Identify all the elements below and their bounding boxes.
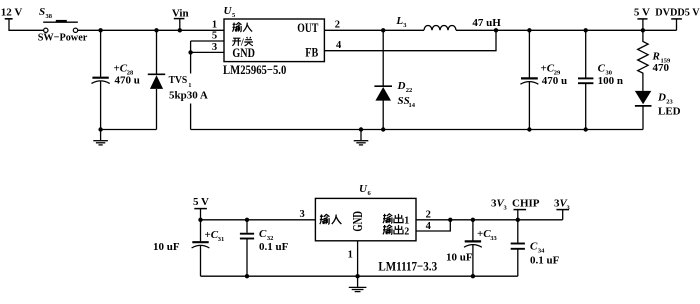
wire 5V stub	[642, 19, 644, 30]
svg-text:GND: GND	[350, 211, 365, 232]
svg-text:FB: FB	[305, 45, 318, 60]
svg-text:GND: GND	[232, 45, 255, 60]
ground bottom	[349, 276, 367, 291]
svg-text:TVS: TVS	[169, 74, 188, 86]
wire DVDD5 stub	[676, 19, 678, 30]
switch S38 contact bar	[43, 21, 78, 23]
wire middle ground rail	[191, 129, 643, 131]
LED D23	[635, 91, 652, 130]
wire 3V3 stub	[562, 210, 564, 220]
svg-text:0.1 uF: 0.1 uF	[259, 241, 289, 253]
svg-text:31: 31	[218, 236, 225, 243]
svg-text:3: 3	[300, 209, 305, 220]
node pin3/pin5 junction	[188, 50, 192, 54]
label U5 on/off (CJK)	[232, 38, 241, 46]
terminal DVDD5 bar	[671, 18, 682, 20]
svg-text:1: 1	[348, 250, 353, 261]
svg-text:R: R	[652, 51, 660, 63]
svg-text:2: 2	[426, 210, 431, 221]
node Vin	[178, 28, 182, 32]
node D22 bottom	[381, 127, 385, 131]
capacitor C30	[578, 30, 593, 129]
regulator IC U5 box	[224, 19, 324, 62]
terminal 12V bar	[5, 18, 13, 20]
wire CHIP stub	[517, 210, 519, 220]
svg-text:5 V: 5 V	[193, 196, 209, 208]
node C31 top	[198, 218, 202, 222]
svg-text:3: 3	[212, 42, 217, 53]
label TVS1 background	[167, 74, 199, 89]
wire OUT to inductor	[324, 29, 424, 31]
label U5 input (CJK)	[232, 23, 241, 32]
node D22 top	[381, 28, 385, 32]
svg-text:LM1117−3.3: LM1117−3.3	[378, 258, 437, 273]
terminal 3V3 CHIP bar	[514, 209, 527, 211]
svg-text:0.1 uF: 0.1 uF	[530, 255, 560, 267]
svg-text:CHIP: CHIP	[512, 198, 540, 210]
wire pin2 output	[416, 219, 563, 221]
node C33 bottom	[471, 274, 475, 278]
node C32 top	[245, 218, 249, 222]
svg-text:+C: +C	[205, 229, 219, 241]
svg-text:1: 1	[404, 215, 409, 226]
svg-text:38: 38	[46, 13, 53, 20]
svg-text:47 uH: 47 uH	[472, 17, 501, 29]
svg-text:DVDD5 V: DVDD5 V	[655, 7, 699, 19]
node FB tap	[494, 28, 498, 32]
svg-text:100 n: 100 n	[598, 75, 623, 87]
wire FB feedback	[324, 30, 496, 50]
resistor R159	[638, 30, 648, 91]
svg-text:1: 1	[188, 82, 191, 89]
svg-text:2: 2	[404, 226, 409, 237]
terminal 3V3 bar	[556, 209, 569, 211]
svg-text:1: 1	[212, 20, 217, 31]
svg-text:5kp30 A: 5kp30 A	[169, 89, 208, 101]
label U6 input (CJK)	[320, 214, 330, 224]
node C30 bottom	[584, 127, 588, 131]
capacitor C31	[192, 220, 210, 276]
svg-text:14: 14	[409, 102, 416, 109]
capacitor C32	[240, 220, 254, 276]
wire 12V stub	[9, 19, 44, 31]
node 5V / R159	[641, 28, 645, 32]
node pin2/pin4 join	[448, 218, 452, 222]
node C28 bottom	[98, 127, 102, 131]
inductor L3	[424, 25, 456, 30]
wire left ground rail	[101, 129, 157, 131]
svg-text:5 V: 5 V	[634, 7, 650, 19]
value 5kp30 A background	[167, 89, 210, 104]
wire pin4 output	[416, 220, 450, 231]
capacitor C33	[464, 220, 482, 276]
wire bottom rail	[201, 275, 518, 277]
svg-text:C: C	[598, 63, 606, 75]
node C33 top	[471, 218, 475, 222]
ground left	[93, 130, 108, 145]
regulator IC U6 box	[315, 198, 416, 240]
svg-text:4: 4	[336, 40, 342, 51]
svg-text:33: 33	[490, 235, 497, 242]
terminal 5V (bottom) bar	[194, 208, 207, 210]
wire Vin stub	[179, 19, 181, 31]
svg-text:470 u: 470 u	[115, 75, 140, 87]
svg-text:23: 23	[666, 99, 673, 106]
svg-text:2: 2	[335, 20, 340, 31]
svg-text:C: C	[530, 240, 538, 252]
svg-text:22: 22	[406, 87, 413, 94]
svg-text:D: D	[397, 80, 406, 92]
diode D22	[374, 30, 392, 129]
node C30 top	[584, 28, 588, 32]
switch S38 left contact	[44, 28, 48, 32]
ground middle	[354, 130, 369, 145]
svg-text:10 uF: 10 uF	[153, 241, 180, 253]
svg-text:+C: +C	[114, 63, 128, 75]
svg-text:LM25965−5.0: LM25965−5.0	[223, 62, 286, 77]
svg-text:L: L	[395, 15, 403, 27]
TVS diode TVS3	[148, 30, 165, 129]
node CHIP / C34	[516, 218, 520, 222]
wire inductor to DVDD5	[456, 29, 677, 31]
node C32 bottom	[245, 274, 249, 278]
svg-text:C: C	[259, 228, 267, 240]
capacitor C29	[520, 30, 538, 129]
capacitor C34	[511, 220, 525, 276]
node C28 top	[98, 28, 102, 32]
svg-text:12 V: 12 V	[1, 7, 23, 19]
svg-text:10 uF: 10 uF	[446, 251, 473, 263]
svg-text:SW−Power: SW−Power	[38, 31, 88, 43]
svg-text:OUT: OUT	[297, 20, 318, 35]
wire U6 pin1 down	[357, 241, 359, 276]
terminal 5V bar	[637, 18, 647, 20]
wire 5V to U6 input	[201, 219, 316, 221]
node C29 top	[527, 28, 531, 32]
node mid-ground	[359, 127, 363, 131]
wire top rail from switch to U5	[78, 29, 224, 31]
wire U5 gnd down	[190, 41, 192, 130]
terminal Vin bar	[174, 18, 185, 20]
svg-text:34: 34	[538, 248, 545, 255]
svg-text:S: S	[39, 6, 45, 18]
wire pin5	[191, 40, 224, 42]
node TVS top	[154, 28, 158, 32]
svg-text:LED: LED	[658, 106, 681, 118]
label U6 output1 (CJK)	[383, 214, 392, 223]
switch S38 right contact	[73, 28, 77, 32]
switch S38 button	[56, 20, 67, 22]
node pin1 ground	[355, 274, 359, 278]
svg-text:Vin: Vin	[172, 7, 189, 19]
wire pin3	[191, 51, 224, 53]
wire 5V stub (bottom)	[200, 209, 202, 220]
capacitor C28	[92, 30, 110, 129]
svg-text:4: 4	[426, 221, 432, 232]
svg-text:D: D	[657, 92, 666, 104]
label U6 output2 (CJK)	[383, 225, 392, 234]
svg-text:470 u: 470 u	[542, 75, 567, 87]
svg-text:470: 470	[653, 62, 670, 74]
node C29 bottom	[527, 127, 531, 131]
svg-text:5: 5	[212, 31, 217, 42]
svg-text:+C: +C	[541, 63, 555, 75]
svg-text:+C: +C	[477, 228, 491, 240]
